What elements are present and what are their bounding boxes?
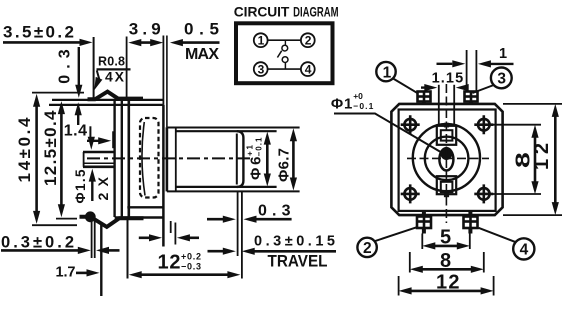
dim 1.4 target line	[112, 131, 114, 148]
cavity dashed rounded rect	[140, 118, 159, 198]
svg-text:Φ1.5: Φ1.5	[73, 169, 88, 203]
wire 3-4	[268, 68, 301, 70]
rivet top-left	[401, 115, 420, 134]
top pin 2 stem	[469, 102, 473, 105]
callout 1 leader	[393, 79, 417, 94]
dim 1.4 arrow right	[87, 140, 100, 142]
dim 12.5±0.4 rotated text	[41, 110, 60, 186]
terminal 2 circle	[301, 33, 315, 47]
top pin 2 square	[465, 92, 478, 102]
svg-text:4X: 4X	[105, 69, 125, 85]
base back extension line	[126, 37, 128, 102]
vertical centerline	[445, 84, 447, 223]
leader arrow for R0.8 4X	[97, 71, 100, 81]
switch contact stub bottom	[284, 63, 286, 70]
key slot ext line left	[438, 85, 440, 126]
boss inner circle	[425, 137, 469, 181]
locating pin end cap	[83, 152, 85, 167]
dome spring arc	[142, 122, 145, 196]
svg-text:1: 1	[383, 64, 392, 81]
svg-text:3.9: 3.9	[129, 20, 161, 39]
base bottom edge	[115, 216, 164, 219]
bottom pin 1 stem	[422, 210, 426, 217]
callout 4 circle	[513, 238, 534, 259]
svg-text:2: 2	[305, 34, 312, 48]
inner square	[399, 110, 496, 211]
locating pin inner line	[83, 162, 114, 164]
dim 1.4 tick	[89, 126, 91, 142]
dim 1 arrow	[437, 63, 453, 65]
svg-text:Φ6.7: Φ6.7	[276, 148, 293, 182]
svg-text:0.5: 0.5	[184, 20, 219, 39]
tab lip line left	[91, 220, 93, 259]
svg-text:12: 12	[158, 252, 181, 274]
svg-text:+0.2: +0.2	[181, 252, 201, 262]
callout 3 leader	[473, 85, 494, 93]
key slot ext line right	[453, 85, 455, 126]
square ext lines right	[503, 103, 562, 105]
svg-text:1.15: 1.15	[432, 71, 464, 87]
shaft tip chamfer line	[236, 134, 238, 185]
bushing front face	[162, 105, 165, 247]
svg-text:+1: +1	[246, 144, 255, 156]
dim 12 vertical text rotated	[531, 143, 553, 170]
center oval keyhole	[439, 148, 453, 170]
terminal 1 circle	[254, 33, 268, 47]
key cup top outer	[437, 126, 456, 145]
bottom pin 2 stem	[468, 210, 472, 217]
dim 12 line with arrows	[140, 273, 229, 276]
bottom reference line for 12.5 dim	[56, 218, 77, 220]
bottom pin 2 square	[464, 217, 478, 229]
phi1 leader	[334, 114, 442, 153]
dim 12 ext lines	[398, 276, 400, 296]
rivet ext lines right	[492, 124, 541, 126]
collar face extension	[166, 36, 168, 128]
svg-text:2: 2	[363, 240, 372, 257]
shaft end lower ext line right	[241, 192, 243, 279]
svg-text:R0.8: R0.8	[98, 55, 125, 69]
svg-text:TRAVEL: TRAVEL	[268, 252, 328, 270]
dim 1.4 arrow down to pin	[88, 137, 95, 150]
arrow up to pin bottom	[91, 176, 93, 201]
svg-text:3: 3	[258, 63, 265, 77]
dim 3.9 line with arrows	[135, 41, 156, 44]
dim 1.15 arrows	[421, 86, 425, 88]
svg-text:Φ1: Φ1	[331, 96, 353, 113]
dim 0.3 lower arrow up	[77, 112, 79, 126]
top pin 1 stem	[422, 102, 426, 105]
svg-text:3: 3	[497, 70, 506, 87]
dim 0.3 shaft arrows	[207, 218, 224, 221]
dim 12 vertical line with arrows	[554, 115, 557, 205]
callout 2 leader	[374, 227, 416, 241]
svg-text:4: 4	[305, 63, 312, 77]
shoulder gap tick	[170, 221, 172, 233]
bushing front face extension	[162, 36, 164, 105]
svg-text:4: 4	[520, 241, 529, 258]
bottom reference line for 14 dim	[32, 224, 77, 226]
dim 12.5±0.4 line with arrows	[60, 112, 63, 206]
tab lip line right	[94, 221, 96, 258]
dim 14±0.4 rotated text	[15, 117, 34, 183]
svg-text:DIAGRAM: DIAGRAM	[293, 4, 339, 19]
shaft end lower ext line left	[237, 192, 239, 257]
rivet top-right	[474, 115, 493, 134]
wire 1-2	[268, 39, 301, 41]
svg-text:1: 1	[499, 46, 507, 62]
dim 5 line with arrows	[433, 245, 459, 248]
terminal extension line	[100, 223, 102, 297]
dim 14±0.4 line with arrows	[35, 105, 38, 212]
centerline dashed	[87, 157, 253, 159]
svg-text:1.4: 1.4	[64, 122, 87, 139]
horizontal centerline	[407, 157, 489, 159]
circuit diagram box	[236, 23, 333, 83]
svg-text:12.5±0.4: 12.5±0.4	[41, 110, 60, 186]
dim 5 ext lines	[421, 234, 423, 250]
dim 0.3 upper arrow down	[78, 47, 80, 86]
label phi6.7 rotated	[276, 148, 293, 182]
bottom mounting tab bent	[80, 217, 144, 227]
rivet dot on bottom tab	[85, 211, 96, 222]
key cup bottom inner	[441, 182, 453, 192]
svg-text:+0: +0	[353, 91, 363, 101]
switch contact stub top	[284, 40, 286, 45]
dim phi6.7 arrows	[292, 137, 295, 181]
dim 3.5±0.2 line	[3, 41, 81, 44]
terminal 4 circle	[301, 62, 315, 76]
callout 2 circle	[357, 238, 376, 257]
wire top face lower line	[49, 104, 163, 106]
callout 1 circle	[376, 62, 395, 81]
top mounting tab bent	[88, 92, 144, 100]
base front face	[128, 101, 131, 219]
key cup top inner	[441, 130, 453, 140]
shaft tip outline	[237, 131, 244, 187]
dim 0.3±0.15 arrows	[208, 250, 225, 253]
svg-text:0.3: 0.3	[57, 49, 74, 84]
collar rear face	[166, 127, 169, 191]
dim 0.3±0.2 line arrow right	[1, 249, 79, 252]
svg-text:−0.3: −0.3	[181, 262, 201, 272]
dim 0.3±0.2 arrow left with tail	[108, 249, 120, 252]
dim 8 line with arrows	[421, 268, 474, 271]
dim 12 line with arrows	[410, 290, 484, 293]
switch contact circle bottom	[282, 57, 288, 63]
label phi6 with tolerance rotated	[248, 157, 265, 181]
label phi1.5 rotated	[73, 169, 88, 203]
bushing bottom edge	[127, 206, 163, 208]
switch lever	[277, 51, 281, 58]
dim 8 ext lines	[409, 252, 411, 273]
dim 0.5 line arrow left	[181, 41, 220, 44]
shoulder gap line	[174, 223, 176, 245]
pair arrows at bushing face	[139, 237, 150, 240]
boss outer circle	[413, 124, 480, 191]
dim 0.3 rotated text	[57, 49, 74, 84]
callout 3 circle	[491, 68, 512, 89]
svg-text:−0.1: −0.1	[255, 137, 264, 157]
rivet bottom-right	[474, 184, 493, 203]
callout 4 leader	[479, 228, 515, 242]
svg-text:MAX: MAX	[185, 46, 219, 63]
locating pin top edge	[83, 151, 114, 154]
pin right ext line	[466, 50, 468, 91]
extension line from plate back	[93, 37, 95, 99]
svg-text:CIRCUIT: CIRCUIT	[234, 4, 290, 19]
collar front face	[175, 127, 177, 191]
top reference line for 14 dim	[32, 92, 84, 94]
frame plate front line	[121, 99, 123, 217]
shaft bottom edge with phi6 extension	[176, 186, 277, 188]
collar bottom edge with phi6.7 extension	[167, 190, 300, 192]
rivet bottom-left	[401, 184, 420, 203]
label 2X rotated	[95, 176, 111, 200]
svg-text:1.7: 1.7	[56, 265, 76, 281]
dim 8 vertical text rotated	[513, 152, 535, 168]
svg-text:Φ6: Φ6	[248, 157, 265, 181]
keyhole dark fill	[440, 148, 452, 160]
key cup bottom outer	[437, 176, 456, 194]
outer square with chamfers	[391, 104, 502, 215]
svg-text:1: 1	[258, 34, 265, 48]
terminal 3 circle	[254, 62, 268, 76]
dim 1.7 line arrow right	[76, 272, 88, 275]
frame plate back line	[113, 101, 115, 218]
bottom pin 1 square	[417, 217, 431, 229]
switch contact circle top	[282, 45, 288, 51]
shaft top edge with phi6 extension	[176, 130, 277, 132]
svg-text:0.3: 0.3	[258, 203, 291, 220]
locating pin bottom edge	[83, 166, 114, 169]
dim phi6 arrows	[266, 140, 269, 177]
collar top edge with phi6.7 extension	[167, 127, 300, 129]
svg-text:−0.1: −0.1	[353, 101, 373, 111]
top pin 1 square	[418, 92, 431, 102]
wire top face upper line	[52, 99, 163, 101]
dim 8 vertical line with arrows	[534, 136, 537, 184]
